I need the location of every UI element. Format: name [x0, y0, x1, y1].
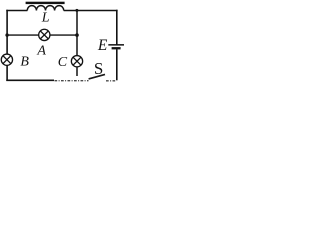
svg-text:B: B: [20, 54, 29, 69]
wire bottom dash-dot left: [55, 80, 89, 82]
wire branch A right: [50, 34, 78, 36]
svg-text:L: L: [41, 11, 50, 26]
svg-text:E: E: [97, 37, 108, 54]
wire right border lower: [116, 49, 118, 80]
wire top-left horizontal segment: [6, 10, 27, 12]
wire top-right horizontal segment: [64, 10, 118, 12]
switch S blade: [89, 74, 105, 79]
battery E short plate: [112, 47, 121, 49]
svg-text:S: S: [94, 59, 103, 78]
lamp B: [1, 54, 12, 65]
node junction middle: [75, 33, 79, 37]
wire middle vertical lower: [76, 67, 78, 76]
inductor L coil humps: [27, 6, 63, 11]
svg-text:C: C: [58, 55, 68, 70]
wire bottom dash-dot right: [106, 80, 117, 82]
lamp C: [71, 56, 82, 67]
wire right border upper: [116, 10, 118, 45]
battery E long plate: [108, 44, 124, 46]
node junction left: [5, 33, 8, 36]
svg-text:A: A: [36, 43, 46, 58]
wire middle vertical upper: [76, 11, 78, 56]
node junction top: [75, 9, 78, 12]
wire left border lower: [6, 65, 8, 81]
inductor core bar: [26, 2, 65, 4]
lamp A: [39, 29, 50, 40]
wire left border upper: [6, 10, 8, 54]
wire branch A left: [7, 34, 39, 36]
wire bottom solid: [6, 79, 54, 81]
